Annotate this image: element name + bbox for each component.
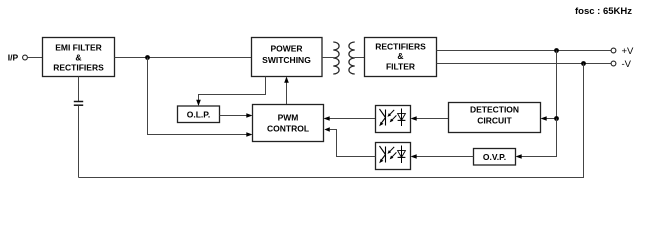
wire O.L.P. to PWM CONTROL bbox=[220, 113, 253, 118]
wire optocoupler PC1 to PWM CONTROL bbox=[324, 116, 376, 121]
block RECTIFIERS & FILTER bbox=[365, 38, 437, 77]
junction -V return tap bbox=[581, 61, 586, 66]
wire sense to O.V.P. bbox=[516, 119, 557, 159]
wire PC2 to PWM CONTROL bbox=[324, 127, 375, 156]
wire POWER SWITCHING to O.L.P. bbox=[196, 77, 265, 107]
wire EMI to POWER SWITCHING bbox=[115, 57, 252, 59]
capacitor C1 upper lead bbox=[78, 77, 80, 102]
svg-text:O.L.P.: O.L.P. bbox=[187, 110, 210, 120]
wire return bus bottom bbox=[79, 64, 584, 178]
wire PWM CONTROL to POWER SWITCHING bbox=[284, 77, 289, 105]
terminal I/P bbox=[23, 55, 28, 60]
block O.L.P. bbox=[178, 106, 220, 123]
block DETECTION CIRCUIT bbox=[449, 103, 541, 133]
svg-text:FILTER: FILTER bbox=[386, 62, 415, 72]
svg-text:EMI FILTER: EMI FILTER bbox=[55, 42, 102, 52]
svg-text:DETECTION: DETECTION bbox=[470, 105, 519, 115]
junction node feedback tap bbox=[145, 55, 150, 60]
wire POWER SWITCHING to transformer primary bbox=[322, 57, 334, 59]
svg-text:fosc : 65KHz: fosc : 65KHz bbox=[575, 6, 632, 17]
svg-text:O.V.P.: O.V.P. bbox=[483, 152, 506, 162]
block POWER SWITCHING bbox=[252, 38, 323, 77]
wire transformer secondary to rectifiers bbox=[355, 57, 365, 59]
transformer T1 primary winding bbox=[333, 42, 339, 74]
svg-text:-V: -V bbox=[622, 59, 632, 70]
wire O.V.P. to optocoupler PC2 bbox=[411, 154, 474, 159]
svg-text:SWITCHING: SWITCHING bbox=[262, 55, 311, 65]
svg-text:I/P: I/P bbox=[8, 53, 19, 63]
junction sense to OVP tap bbox=[554, 116, 559, 121]
svg-text:CIRCUIT: CIRCUIT bbox=[477, 116, 512, 126]
svg-text:POWER: POWER bbox=[270, 44, 302, 54]
transformer T1 secondary winding bbox=[349, 42, 355, 74]
wire -V output bbox=[437, 63, 612, 65]
wire +V output bbox=[437, 50, 612, 52]
svg-text:CONTROL: CONTROL bbox=[267, 123, 309, 133]
terminal -V bbox=[611, 61, 616, 66]
terminal +V bbox=[611, 48, 616, 53]
svg-text:PWM: PWM bbox=[278, 112, 299, 122]
svg-text:&: & bbox=[75, 52, 81, 62]
svg-text:RECTIFIERS: RECTIFIERS bbox=[375, 42, 426, 52]
wire DETECTION CIRCUIT to PC1 bbox=[411, 116, 449, 121]
block O.V.P. bbox=[474, 149, 516, 166]
wire I/P to EMI filter bbox=[27, 57, 42, 59]
wire capacitor to return bus bbox=[78, 106, 80, 178]
junction +V sense tap bbox=[554, 48, 559, 53]
wire feedback tap to PWM CONTROL bbox=[148, 58, 253, 137]
capacitor C1 bbox=[74, 102, 83, 106]
svg-text:RECTIFIERS: RECTIFIERS bbox=[53, 62, 104, 72]
optocoupler PC1 bbox=[376, 106, 411, 133]
svg-text:&: & bbox=[397, 51, 403, 61]
optocoupler PC2 bbox=[376, 143, 411, 170]
svg-text:+V: +V bbox=[622, 46, 635, 57]
block EMI FILTER & RECTIFIERS bbox=[43, 38, 115, 77]
wire +V sense to DETECTION CIRCUIT bbox=[541, 51, 557, 121]
block PWM CONTROL bbox=[253, 105, 324, 142]
